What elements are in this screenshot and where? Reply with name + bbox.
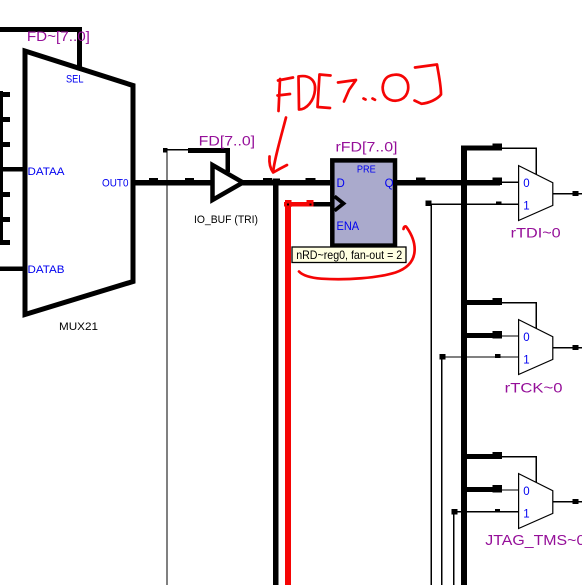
wire rTDI output [553, 193, 582, 194]
mux JTAG_TMS~0 body [519, 474, 553, 529]
wire thin TMS sel vertical [536, 456, 537, 483]
wire thin rTCK sel vertical [536, 302, 537, 329]
wire OE thin vertical long [167, 149, 168, 585]
tick Q wire end [493, 178, 503, 186]
node dot on clock corner [287, 204, 289, 206]
node rTDI input1 dot [426, 201, 432, 207]
svg-text:OUT0: OUT0 [102, 178, 129, 190]
wire rTCK input1 horizontal [442, 356, 519, 357]
tick rTCK output [573, 345, 579, 350]
pin stub tick 3 [0, 142, 10, 147]
mux21 component body [25, 51, 133, 315]
wire DATAA input [0, 167, 25, 172]
svg-text:0: 0 [523, 178, 529, 190]
pin stub tick 5 [0, 192, 10, 197]
wire Q output horizontal [395, 180, 500, 185]
tick on main wire 1 [149, 178, 158, 185]
svg-text:rTDI~0: rTDI~0 [511, 225, 561, 241]
red traced clock wire horizontal [284, 202, 313, 207]
tick rTCK input1 [495, 354, 501, 358]
tick stub rTDI sel [493, 144, 503, 151]
svg-text:nRD~reg0, fan-out = 2: nRD~reg0, fan-out = 2 [296, 248, 402, 262]
svg-text:0: 0 [523, 332, 529, 344]
svg-text:SEL: SEL [66, 73, 84, 85]
red traced tick [307, 200, 314, 207]
pin stub tick 1 [0, 92, 10, 97]
wire rTDI input1 horizontal [428, 204, 519, 205]
wire thin rTDI sel vertical [536, 147, 537, 174]
svg-text:IO_BUF (TRI): IO_BUF (TRI) [194, 214, 258, 226]
tick rTDI output [573, 191, 579, 196]
red dot 2 [373, 99, 376, 100]
node dot on clock wire [310, 204, 312, 206]
wire thin rTDI sel horizontal [502, 147, 537, 148]
svg-text:DATAB: DATAB [28, 264, 65, 276]
wire thin to TMS input 0 [502, 489, 519, 490]
pin stub tick 2 [0, 117, 10, 122]
wire main FD bus horizontal [133, 180, 330, 185]
svg-text:1: 1 [523, 509, 529, 521]
node TMS input1 dot [451, 509, 457, 515]
red letter D [299, 76, 316, 109]
wire TMS output [553, 501, 582, 502]
wire TMS input1 vertical [453, 511, 454, 585]
tick on Q wire [416, 178, 426, 186]
svg-text:ENA: ENA [337, 221, 360, 233]
wire left component edge vertical [0, 91, 3, 245]
register rFD[7..0] body [332, 160, 395, 245]
tick stub TMS input0 [493, 485, 503, 493]
red annotation group [269, 65, 441, 280]
buffer IO_BUF (TRI) [213, 165, 244, 200]
svg-text:MUX21: MUX21 [59, 321, 98, 333]
red letter O [383, 75, 408, 101]
wire top bus FD~[7..0] horizontal [0, 27, 82, 32]
wire DATAB input [0, 267, 25, 272]
tick stub rTCK sel [493, 298, 503, 305]
wire stub TMS input0 [461, 487, 494, 492]
bus vertical right thick [461, 146, 467, 585]
svg-text:PRE: PRE [357, 165, 376, 176]
pin stub tick 7 [0, 240, 10, 245]
wire thin to rTDI input 0 [502, 182, 519, 183]
wire rTCK output [553, 347, 582, 348]
red circle around tooltip [299, 226, 415, 279]
node rTCK input1 dot [439, 354, 445, 360]
tick on main wire 2 [185, 178, 194, 185]
tick on main wire 3 [263, 178, 272, 185]
pin stub tick 6 [0, 217, 10, 222]
mux rTDI~0 body [519, 166, 553, 221]
clock chevron [335, 196, 344, 210]
svg-text:rFD[7..0]: rFD[7..0] [336, 138, 398, 154]
tick TMS output [573, 499, 579, 504]
tooltip nRD~reg0 fan-out [292, 247, 406, 263]
tick OE net top [163, 148, 168, 153]
svg-text:JTAG_TMS~0: JTAG_TMS~0 [485, 533, 582, 549]
junction bump nRD net [273, 179, 281, 186]
svg-text:FD[7..0]: FD[7..0] [199, 134, 255, 149]
wire thin to rTCK input 0 [502, 335, 519, 336]
svg-text:0: 0 [523, 486, 529, 498]
wire stub rTDI sel [461, 146, 494, 151]
mux rTCK~0 body [519, 320, 553, 375]
svg-text:D: D [337, 178, 345, 190]
wire SEL drop vertical [77, 27, 82, 68]
wire stub rTCK sel [461, 300, 494, 305]
wire rTCK input1 vertical long [441, 357, 442, 585]
tick stub rTCK input0 [493, 331, 503, 339]
wire TMS input1 horizontal [454, 511, 519, 512]
red bracket [ [318, 75, 331, 109]
wire stub TMS sel [461, 454, 494, 459]
svg-text:DATAA: DATAA [28, 166, 66, 178]
svg-text:1: 1 [523, 355, 529, 367]
red dot 1 [364, 99, 366, 100]
wire FD[7..0] label bar [188, 148, 230, 153]
red arrow stem [273, 118, 286, 172]
tick stub TMS sel [493, 452, 503, 459]
wire OE thin horizontal [166, 149, 189, 150]
wire nRD vertical black thick [273, 182, 279, 585]
svg-text:Q: Q [385, 178, 394, 190]
red traced node square on nRD net [285, 200, 292, 207]
wire rTDI input1 vertical long [431, 204, 432, 585]
svg-text:rTCK~0: rTCK~0 [505, 379, 563, 395]
tick on main wire 4 [306, 178, 316, 185]
red traced nRD vertical wire [285, 206, 291, 585]
wire thin rTCK sel horizontal [502, 302, 537, 303]
red digit 7 [338, 80, 356, 102]
tick rTDI input1 [496, 202, 502, 206]
wire thin TMS sel horizontal [502, 456, 537, 457]
wire OE drop vertical [226, 148, 231, 172]
tick TMS input1 [495, 509, 500, 513]
red arrow head [269, 157, 287, 173]
red letter F [278, 78, 294, 112]
svg-text:FD~[7..0]: FD~[7..0] [27, 29, 90, 44]
wire clock input black segment [311, 202, 331, 207]
wire stub rTCK input0 [461, 333, 494, 338]
red bracket ] [415, 65, 442, 104]
svg-text:1: 1 [523, 201, 529, 213]
